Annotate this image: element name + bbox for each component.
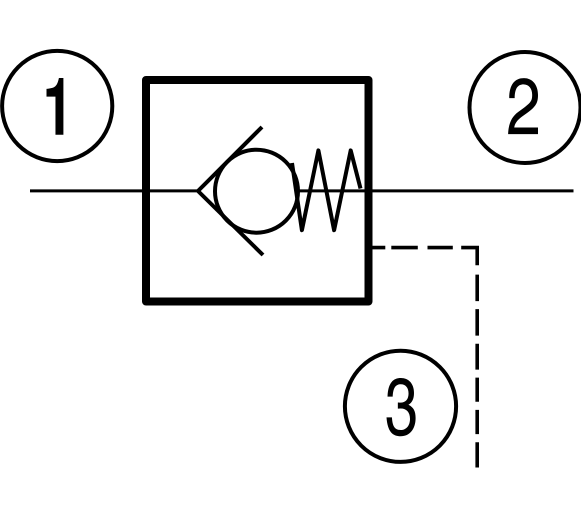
- valve seat lower line: [198, 191, 263, 255]
- pilot line (dashed) horizontal run from valve body toward port 3: [368, 246, 452, 250]
- valve seat upper line: [198, 127, 262, 191]
- pilot line (dashed) corner dash: [461, 248, 477, 266]
- port circle 1: [2, 51, 112, 161]
- valve body box: [146, 80, 369, 302]
- wire: main flow line, left segment from port 1 to seat apex: [30, 189, 199, 192]
- spring: [292, 150, 361, 230]
- check ball: [215, 150, 298, 233]
- port label 3: [387, 378, 416, 436]
- port circle 3: [345, 351, 456, 462]
- port label 2: [508, 78, 538, 134]
- wire: main flow line, right segment from ball to port 2: [297, 189, 574, 192]
- pilot line (dashed) vertical run down to port 3: [475, 275, 479, 468]
- port label 1: [46, 78, 63, 135]
- port circle 2: [470, 52, 581, 163]
